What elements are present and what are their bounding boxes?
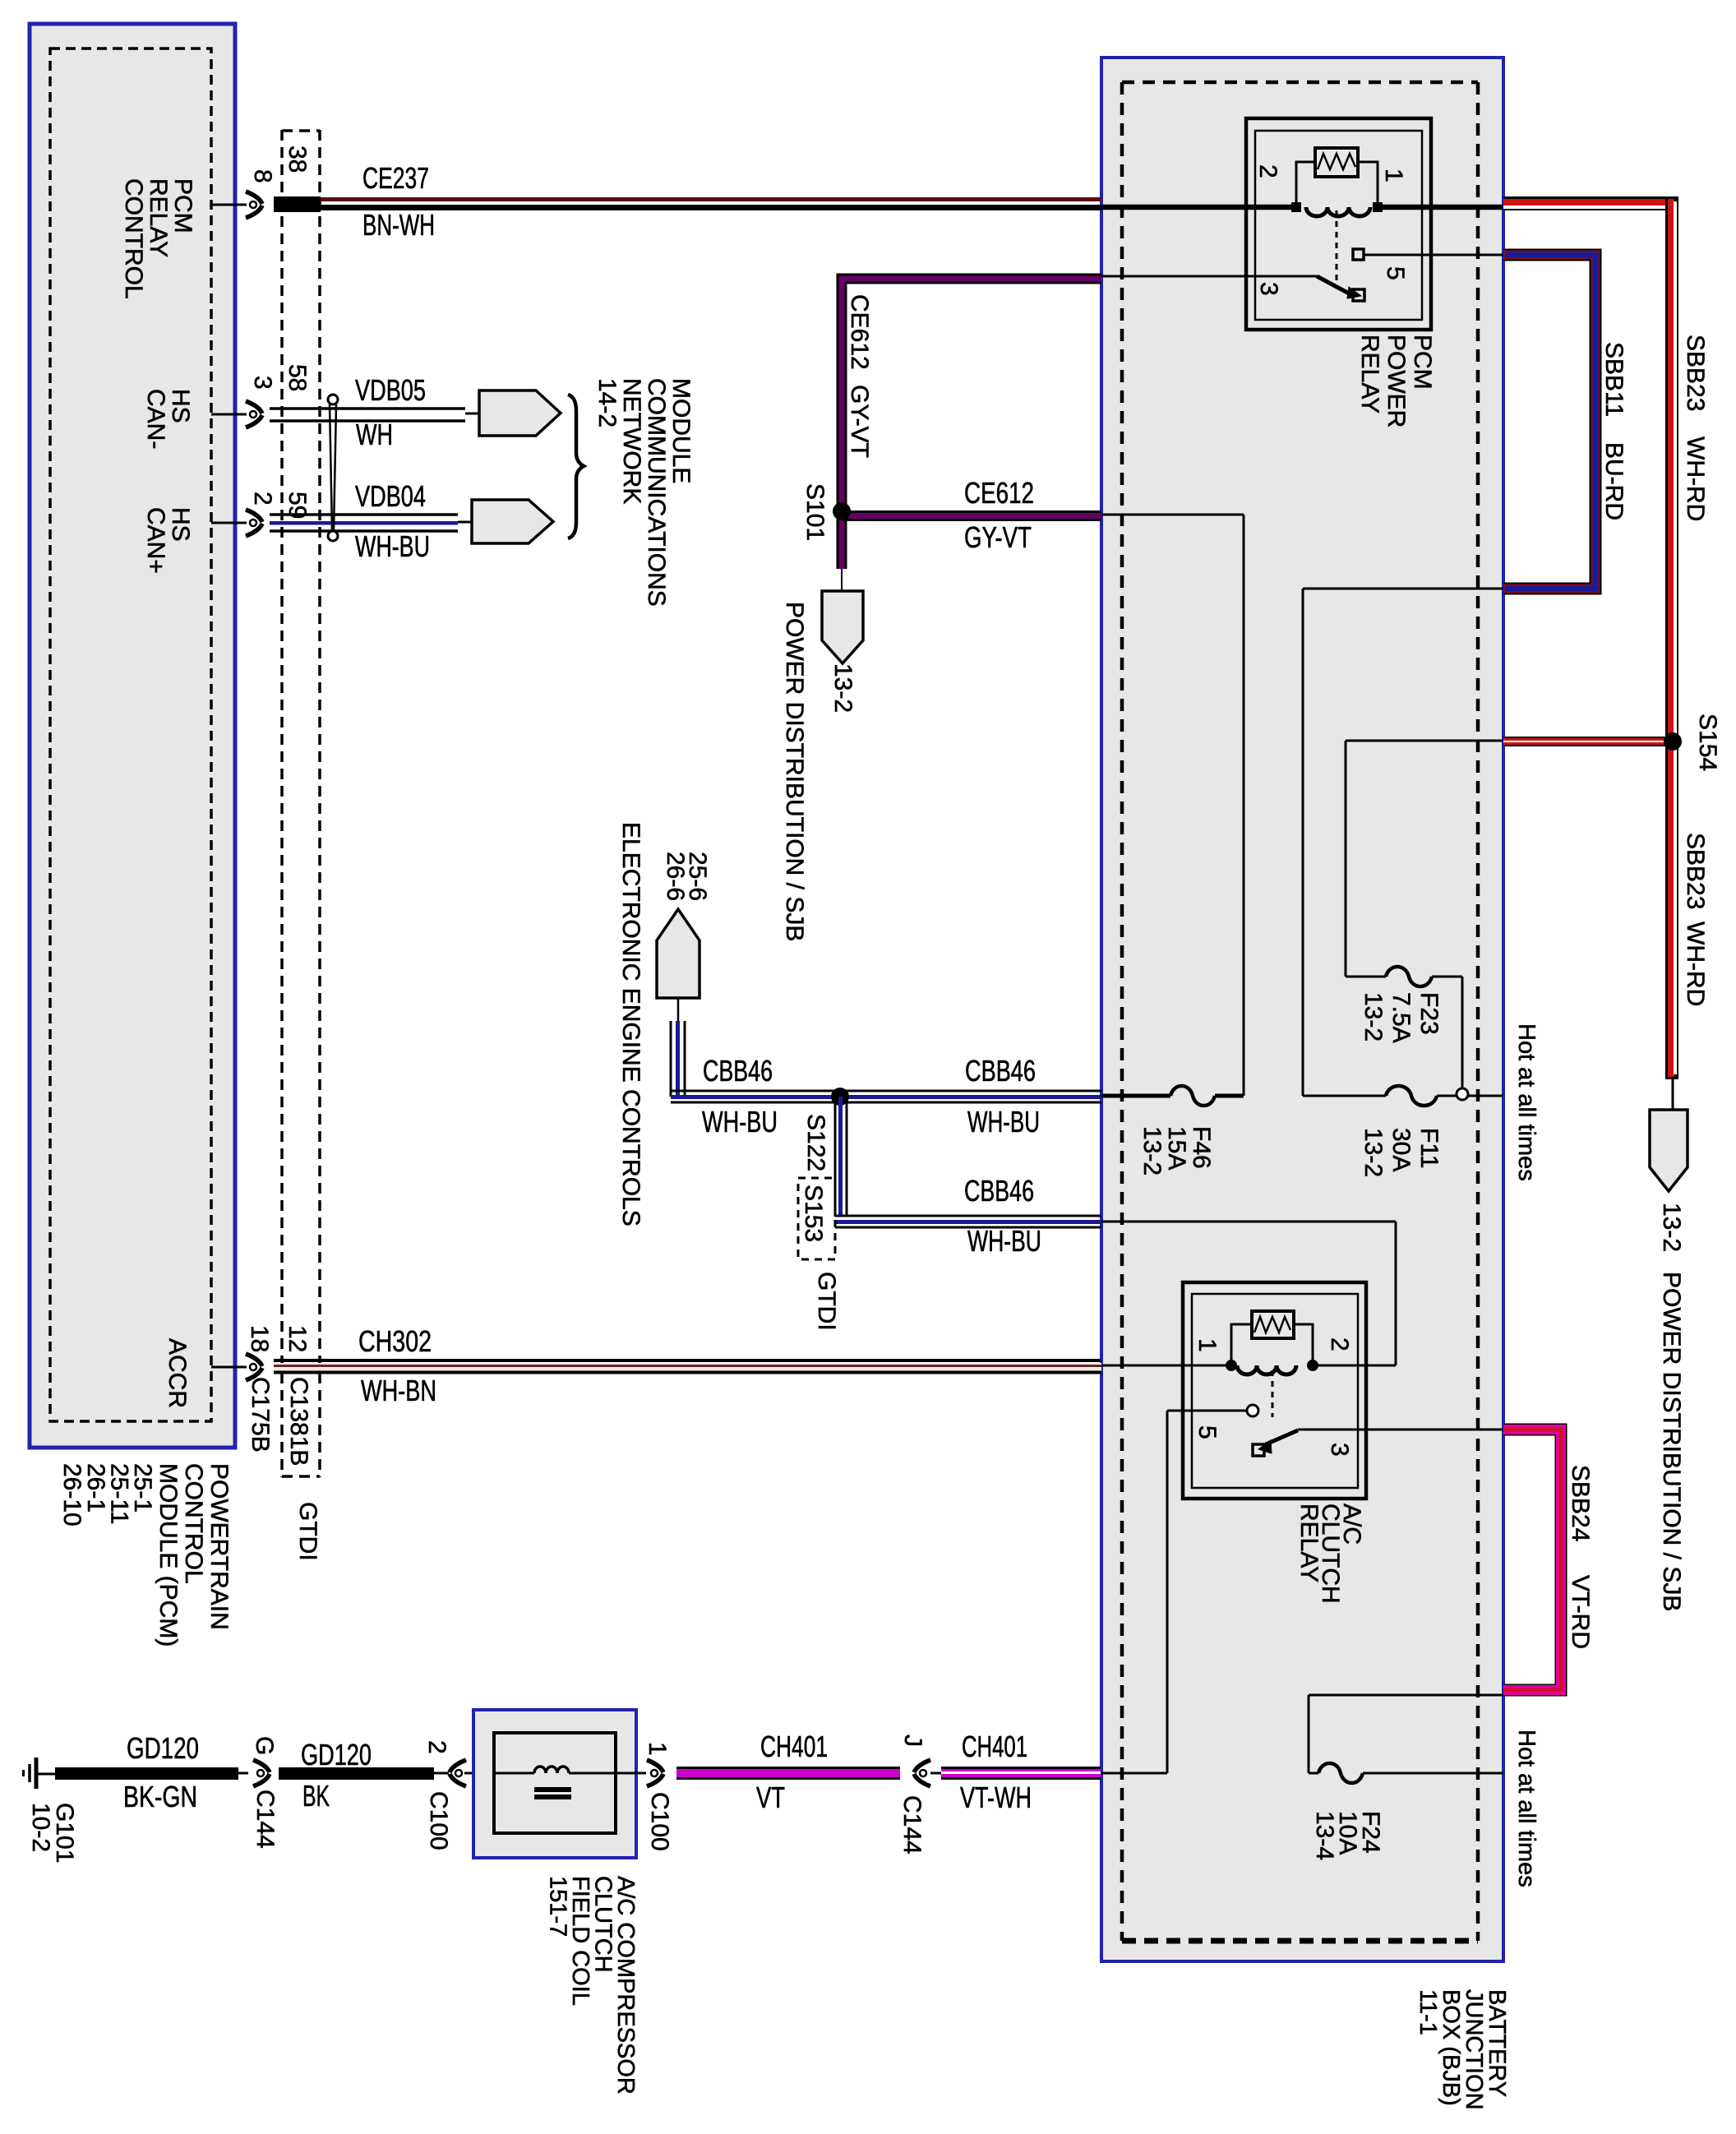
svg-text:PCM: PCM <box>169 178 196 233</box>
svg-text:S101: S101 <box>801 483 829 541</box>
svg-text:CBB46: CBB46 <box>703 1054 773 1088</box>
svg-text:VDB04: VDB04 <box>355 479 426 513</box>
svg-text:3: 3 <box>1326 1443 1353 1457</box>
svg-text:13-2: 13-2 <box>1138 1126 1166 1176</box>
svg-text:HS: HS <box>167 389 194 423</box>
svg-text:WH-BU: WH-BU <box>355 529 430 563</box>
svg-text:2: 2 <box>249 492 276 506</box>
svg-text:ELECTRONIC ENGINE CONTROLS: ELECTRONIC ENGINE CONTROLS <box>617 822 644 1226</box>
svg-text:38: 38 <box>284 145 311 173</box>
svg-text:2: 2 <box>423 1740 450 1754</box>
svg-text:SBB11: SBB11 <box>1600 342 1627 417</box>
svg-text:13-4: 13-4 <box>1311 1811 1338 1860</box>
svg-text:151-7: 151-7 <box>545 1876 571 1937</box>
svg-text:POWERTRAIN: POWERTRAIN <box>205 1463 233 1630</box>
svg-text:CH401: CH401 <box>962 1730 1027 1763</box>
svg-text:11-1: 11-1 <box>1415 1989 1441 2035</box>
svg-text:13-2: 13-2 <box>829 663 856 713</box>
svg-text:BU-RD: BU-RD <box>1600 442 1627 520</box>
svg-text:CH302: CH302 <box>358 1324 432 1358</box>
svg-text:C175B: C175B <box>247 1377 274 1453</box>
svg-text:F11: F11 <box>1415 1128 1443 1168</box>
svg-text:1: 1 <box>644 1742 671 1756</box>
svg-text:18: 18 <box>246 1325 273 1352</box>
svg-text:WH-RD: WH-RD <box>1682 436 1709 521</box>
svg-text:G: G <box>251 1736 278 1755</box>
svg-text:C144: C144 <box>898 1795 926 1855</box>
svg-text:10-2: 10-2 <box>27 1803 54 1852</box>
svg-text:POWER: POWER <box>1383 335 1410 427</box>
svg-text:GD120: GD120 <box>127 1731 199 1765</box>
svg-text:Hot at all times: Hot at all times <box>1513 1730 1540 1887</box>
svg-text:13-2: 13-2 <box>1360 1128 1387 1177</box>
svg-text:2: 2 <box>1326 1337 1353 1351</box>
svg-text:RELAY: RELAY <box>1295 1503 1323 1582</box>
svg-text:WH-RD: WH-RD <box>1682 921 1709 1006</box>
svg-text:VDB05: VDB05 <box>355 373 426 407</box>
svg-text:C100: C100 <box>425 1791 452 1850</box>
svg-text:S153: S153 <box>800 1185 827 1242</box>
svg-text:CAN+: CAN+ <box>142 507 169 574</box>
svg-text:C100: C100 <box>646 1792 673 1851</box>
svg-text:POWER DISTRIBUTION / SJB: POWER DISTRIBUTION / SJB <box>1658 1272 1685 1611</box>
svg-text:WH-BU: WH-BU <box>967 1224 1041 1258</box>
svg-text:CONTROL: CONTROL <box>180 1463 207 1584</box>
svg-text:WH-BU: WH-BU <box>702 1105 778 1139</box>
svg-text:1: 1 <box>1193 1338 1221 1352</box>
svg-text:BK: BK <box>302 1779 330 1813</box>
svg-text:MODULE (PCM): MODULE (PCM) <box>155 1463 182 1647</box>
svg-text:F46: F46 <box>1188 1126 1215 1169</box>
svg-text:14-2: 14-2 <box>593 378 621 427</box>
svg-text:COMMUNICATIONS: COMMUNICATIONS <box>643 378 670 607</box>
svg-text:8: 8 <box>249 169 276 183</box>
svg-text:5: 5 <box>1193 1425 1221 1439</box>
svg-text:VT-RD: VT-RD <box>1567 1575 1594 1649</box>
svg-text:12: 12 <box>284 1325 311 1352</box>
svg-text:GY-VT: GY-VT <box>964 520 1032 554</box>
svg-text:GTDI: GTDI <box>294 1502 321 1561</box>
svg-text:BN-WH: BN-WH <box>362 208 435 242</box>
svg-text:58: 58 <box>284 364 311 391</box>
svg-text:HS: HS <box>167 507 194 542</box>
svg-text:GD120: GD120 <box>301 1738 372 1771</box>
svg-text:C1381B: C1381B <box>285 1377 312 1466</box>
svg-text:SBB23: SBB23 <box>1682 335 1709 411</box>
svg-text:13-2: 13-2 <box>1658 1203 1685 1252</box>
svg-text:WH-BN: WH-BN <box>361 1374 436 1407</box>
svg-text:CBB46: CBB46 <box>965 1054 1036 1088</box>
svg-text:S154: S154 <box>1694 714 1721 771</box>
svg-text:WH-BU: WH-BU <box>967 1105 1040 1139</box>
svg-text:J: J <box>899 1734 926 1747</box>
svg-text:30A: 30A <box>1387 1128 1415 1171</box>
svg-text:CBB46: CBB46 <box>964 1174 1034 1208</box>
svg-text:CAN-: CAN- <box>142 389 169 449</box>
svg-text:CH401: CH401 <box>760 1730 828 1763</box>
svg-text:15A: 15A <box>1163 1126 1190 1170</box>
svg-text:VT-WH: VT-WH <box>960 1781 1032 1814</box>
svg-text:MODULE: MODULE <box>667 378 695 483</box>
svg-text:C144: C144 <box>252 1790 279 1849</box>
svg-text:Hot at all times: Hot at all times <box>1513 1023 1540 1181</box>
svg-text:PCM: PCM <box>1409 335 1436 390</box>
svg-text:BK-GN: BK-GN <box>123 1780 197 1813</box>
svg-text:7.5A: 7.5A <box>1387 992 1415 1043</box>
svg-text:13-2: 13-2 <box>1360 992 1387 1042</box>
svg-text:RELAY: RELAY <box>145 178 172 257</box>
svg-text:NETWORK: NETWORK <box>618 378 645 504</box>
svg-text:5: 5 <box>1382 266 1409 280</box>
svg-text:2: 2 <box>1254 164 1281 178</box>
svg-text:SBB23: SBB23 <box>1682 833 1709 909</box>
svg-text:3: 3 <box>249 376 276 390</box>
svg-text:WH: WH <box>356 418 393 451</box>
svg-text:26-10: 26-10 <box>58 1463 85 1527</box>
svg-text:26-6: 26-6 <box>662 852 689 901</box>
svg-text:RELAY: RELAY <box>1356 335 1383 413</box>
svg-text:VT: VT <box>756 1781 785 1814</box>
svg-text:CE612: CE612 <box>846 294 873 370</box>
svg-text:GTDI: GTDI <box>813 1272 840 1331</box>
svg-text:CE612: CE612 <box>964 476 1034 510</box>
svg-text:1: 1 <box>1380 169 1407 182</box>
svg-text:CONTROL: CONTROL <box>120 178 147 299</box>
svg-text:ACCR: ACCR <box>164 1338 191 1408</box>
svg-text:S122: S122 <box>802 1114 829 1171</box>
svg-text:CE237: CE237 <box>362 161 429 195</box>
svg-text:POWER DISTRIBUTION / SJB: POWER DISTRIBUTION / SJB <box>781 602 808 941</box>
svg-text:GY-VT: GY-VT <box>846 385 873 458</box>
svg-text:3: 3 <box>1255 282 1282 296</box>
svg-text:SBB24: SBB24 <box>1567 1465 1594 1541</box>
svg-text:F23: F23 <box>1415 992 1443 1035</box>
